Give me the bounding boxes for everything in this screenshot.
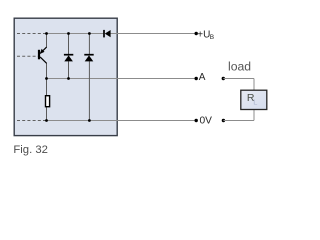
node: load tap on A bbox=[222, 77, 225, 80]
wire: dashed bottom rail stub (from sensor element) bbox=[17, 120, 46, 122]
diode V3 (series protection in +UB rail) bbox=[104, 30, 111, 38]
resistor R1 (pull-down) bbox=[46, 96, 50, 107]
node A terminal bbox=[195, 77, 198, 80]
svg-text:L: L bbox=[253, 98, 257, 107]
wire: R1 bottom to ground rail bbox=[46, 107, 48, 121]
junction: R1 / ground rail bbox=[45, 119, 48, 122]
wire: top supply rail, V3 cathode to +UB terminal bbox=[110, 33, 196, 35]
svg-text:B: B bbox=[210, 34, 214, 41]
wire: A tap to load corner bbox=[223, 78, 254, 80]
sensor output block U1 (shaded box) bbox=[14, 18, 117, 135]
wire: 0V tap to load corner bbox=[223, 120, 254, 122]
junction: V2 / ground rail bbox=[88, 119, 91, 122]
wire: Q1 emitter to top rail bbox=[46, 34, 48, 48]
wire: dashed base drive stub (to Q1 base) bbox=[17, 55, 38, 57]
transistor Q1 (PNP output) bbox=[38, 47, 47, 63]
wire: output rail, collector junction to terminal A bbox=[46, 78, 195, 80]
junction: emitter / top rail bbox=[45, 32, 48, 35]
wire: down to RL top bbox=[253, 79, 255, 91]
svg-text:Fig. 32: Fig. 32 bbox=[13, 144, 48, 156]
wire: top rail to V1 cathode bbox=[68, 34, 70, 56]
wire: V2 anode crossing output rail down to ground rail bbox=[88, 61, 90, 120]
node +UB terminal bbox=[195, 32, 198, 35]
junction: V1 / output rail bbox=[67, 77, 70, 80]
wire: top supply rail, emitter junction to V3 anode bbox=[46, 33, 103, 35]
svg-text:load: load bbox=[228, 59, 251, 73]
diode V1 (clamp, output to top rail) bbox=[64, 55, 73, 62]
wire: Q1 collector down through output rail to R1 bbox=[46, 63, 48, 96]
junction: V1 / top rail bbox=[67, 32, 70, 35]
wire: V1 anode to output rail bbox=[68, 61, 70, 78]
svg-text:0V: 0V bbox=[200, 116, 213, 127]
wire: top rail to V2 cathode bbox=[88, 34, 90, 56]
node: load return on 0V bbox=[222, 119, 225, 122]
svg-text:A: A bbox=[199, 72, 206, 83]
node 0V terminal bbox=[195, 119, 198, 122]
diode V2 (reverse-polarity protection, ground to top rail) bbox=[84, 55, 93, 62]
load resistor RL (box) bbox=[241, 90, 267, 109]
wire: RL bottom down to 0V run bbox=[253, 109, 255, 120]
junction: collector / output rail bbox=[45, 77, 48, 80]
junction: V2 / top rail bbox=[88, 32, 91, 35]
svg-text:+U: +U bbox=[197, 30, 210, 41]
wire: dashed top rail stub (from sensor element) bbox=[17, 33, 46, 35]
wire: ground rail, resistor junction to 0V terminal bbox=[46, 120, 196, 122]
